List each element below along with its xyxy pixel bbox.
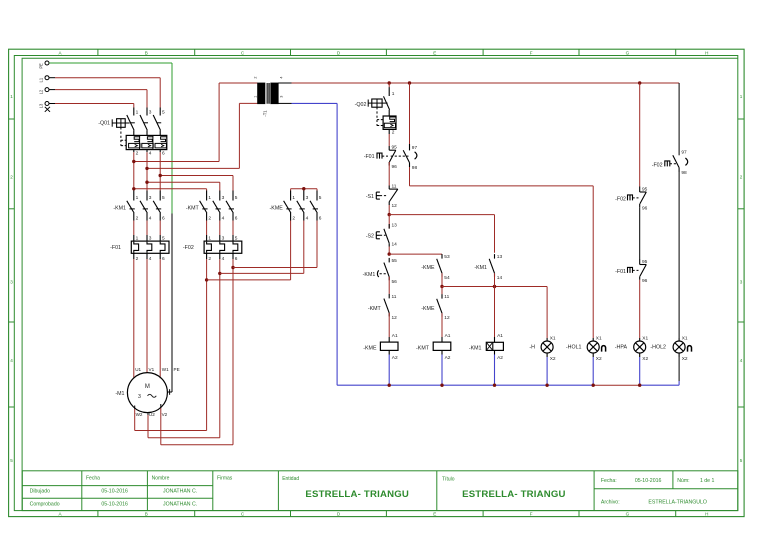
svg-text:2: 2 [292,216,295,222]
svg-text:Título: Título [442,477,455,483]
motor M1 (3-phase) [115,367,179,417]
svg-text:-HOL1: -HOL1 [566,345,582,351]
svg-text:A2: A2 [497,355,503,361]
svg-text:-KMT: -KMT [416,345,430,351]
svg-text:5: 5 [162,236,165,242]
svg-text:1: 1 [292,195,295,201]
thermal contact F01 95-96 (right) [615,259,648,284]
svg-text:05-10-2016: 05-10-2016 [101,489,128,495]
node neutral rail at KME coil [388,384,391,387]
svg-text:H: H [705,50,708,55]
terminal X3 (L2) [39,88,49,95]
svg-text:G: G [626,50,630,55]
wire S2 14 to node with KME 53 branch [388,247,391,256]
svg-text:JONATHAN C.: JONATHAN C. [163,489,197,495]
svg-text:-Q01: -Q01 [98,121,110,127]
svg-text:Comprobado: Comprobado [30,501,60,507]
svg-text:97: 97 [412,145,418,151]
transformer T1 [253,76,283,116]
svg-text:V2: V2 [162,412,168,417]
wire control supply top rail [292,82,680,84]
node neutral rail at KM1 coil [493,384,496,387]
wire top rail to F02 95 [639,83,641,187]
thermal overload relay F01 [110,235,169,262]
wire F02 pin6 down to motor loop V2 [231,259,234,445]
svg-text:96: 96 [642,278,648,284]
wire KMT A2 to neutral rail [441,355,443,386]
contactor KMT main poles [186,191,238,222]
svg-text:2: 2 [136,256,139,262]
svg-text:12: 12 [392,315,398,321]
svg-text:11: 11 [444,294,449,300]
svg-text:X1: X1 [642,335,648,341]
svg-text:3: 3 [10,280,13,285]
start pushbutton S2 (NO) [366,223,397,248]
svg-text:4: 4 [222,256,225,262]
svg-text:-F02: -F02 [615,196,626,202]
entidad cell ESTRELLA-TRIANGU [282,476,409,500]
svg-text:6: 6 [162,151,165,157]
wire lamp H X2 to neutral rail [546,357,548,385]
svg-text:JONATHAN C.: JONATHAN C. [163,501,197,507]
svg-text:3: 3 [149,236,152,242]
thermal contact F02 95-96 [615,187,648,212]
svg-text:-F02: -F02 [183,245,194,251]
auxiliary contact KMT 11-12 [368,294,397,321]
wire lamp HOL2 X2 down to rail [678,357,680,385]
wire top rail corner down to F02 97 [678,83,680,155]
svg-text:55: 55 [392,258,398,264]
svg-text:ESTRELLA- TRIANGU: ESTRELLA- TRIANGU [462,489,566,500]
svg-text:X2: X2 [642,356,648,362]
svg-text:2: 2 [208,216,211,222]
svg-text:-F01: -F01 [615,269,626,275]
svg-text:95: 95 [642,187,648,193]
svg-text:-KME: -KME [421,306,435,312]
wire L2 tap to KMT pin 3 [145,181,220,191]
svg-text:X1: X1 [596,335,602,341]
svg-text:5: 5 [162,110,165,116]
svg-text:W1: W1 [162,367,169,372]
svg-text:A1: A1 [497,333,503,339]
svg-text:1: 1 [253,96,257,98]
svg-text:ESTRELLA-TRIANGULO: ESTRELLA-TRIANGULO [648,500,707,506]
svg-text:14: 14 [497,275,503,281]
svg-text:W2: W2 [136,412,143,417]
indicator lamp HOL2 [650,335,691,362]
node neutral rail at KMT coil [440,384,443,387]
svg-text:-Q02: -Q02 [355,102,367,108]
wire F01 pin6 to motor W1 [159,259,161,378]
svg-text:-S2: -S2 [366,234,374,240]
wire T1 secondary 3 stub [278,102,291,104]
svg-text:5: 5 [235,195,238,201]
wire L3 tap to KMT pin 5 [159,174,234,191]
svg-text:3: 3 [222,236,225,242]
svg-text:1: 1 [208,195,211,201]
wire KM1 A2 to neutral rail [494,355,496,386]
titulo cell ESTRELLA-TRIANGU [442,477,566,501]
svg-text:-F02: -F02 [652,162,663,168]
indicator lamp HOL1 [566,335,606,362]
svg-text:-KME: -KME [270,205,284,211]
wire L2 tap to transformer primary terminal 1 [145,103,257,170]
node junction top rail at F02 95 [638,81,641,84]
svg-text:Nombre: Nombre [152,476,170,482]
svg-text:Archivo:: Archivo: [601,500,620,506]
svg-text:V1: V1 [149,367,155,372]
svg-text:54: 54 [444,275,450,281]
wire neutral rail left section [337,384,593,386]
wire loop to motor W2 [135,406,207,431]
svg-text:B: B [145,50,148,55]
wire KMT pin 4 to F02 pin 3 [219,221,221,236]
wire Q01 pin6 down to KM1 pin5 [159,152,161,190]
svg-text:PE: PE [174,367,180,372]
wire lamp HPA X2 to neutral rail [639,357,641,385]
svg-text:U2: U2 [149,412,155,417]
wire KME 54 to node 286 [440,273,443,288]
svg-text:5: 5 [235,236,238,242]
svg-text:53: 53 [444,254,450,260]
svg-text:-KME: -KME [363,345,377,351]
drawing area frame [22,58,738,510]
auxiliary contact KM1 55-56 [363,258,398,285]
title block dividers [22,471,738,511]
svg-text:-F01: -F01 [364,154,375,160]
svg-text:1 de 1: 1 de 1 [700,478,715,484]
auxiliary contact KME 53-54 [421,254,450,281]
wire F02 pin4 branch to KME pin 4 [220,221,304,274]
svg-text:1: 1 [136,236,139,242]
wire KMT 12 to KME coil A1 [388,313,390,337]
svg-text:4: 4 [10,358,13,363]
svg-text:X1: X1 [682,335,688,341]
svg-text:3: 3 [279,96,283,98]
svg-text:X2: X2 [596,356,602,362]
svg-text:Firmas: Firmas [217,476,233,482]
svg-text:6: 6 [162,216,165,222]
row numbers 1-5 [10,94,743,463]
svg-text:5: 5 [10,458,13,463]
indicator lamp HPA [615,335,649,362]
wire neutral rail middle red section [593,384,640,386]
wire KM1 56 to KMT 11 [388,277,390,294]
svg-text:-KM1: -KM1 [474,265,487,271]
svg-text:F: F [530,512,533,517]
svg-text:05-10-2016: 05-10-2016 [101,501,128,507]
wire node to S2 [388,215,390,229]
motor protection breaker Q02 [355,83,396,135]
wire branch S2 to KME 53 [389,253,442,255]
svg-text:4: 4 [222,216,225,222]
svg-text:B: B [145,512,148,517]
wire KME 12 to KMT coil A1 [441,313,443,337]
svg-text:4: 4 [149,256,152,262]
wire KME A2 to neutral rail [388,355,390,386]
svg-text:Fecha:: Fecha: [601,478,617,484]
svg-text:12: 12 [444,315,450,321]
svg-text:X2: X2 [682,356,688,362]
circuit breaker Q01 (3-pole magnetothermal) [98,108,167,157]
svg-text:-H: -H [529,345,535,351]
svg-text:E: E [433,50,436,55]
svg-text:96: 96 [642,206,648,212]
terminal X1 (PE) [39,61,49,69]
thermal NO contact F02 97-98 [652,150,688,176]
wire PE black continuation into motor [168,214,172,395]
wire L1 to Q01 pin 5 [49,78,160,108]
auxiliary contact KME 11-12 [421,294,450,321]
thermal contact F01 95-96 [364,145,397,170]
svg-text:4: 4 [149,151,152,157]
wire node to KM1 coil A1 [494,287,496,338]
svg-text:5: 5 [162,195,165,201]
svg-text:-M1: -M1 [115,391,124,397]
svg-text:96: 96 [392,164,398,170]
svg-text:Núm:: Núm: [677,478,689,484]
svg-text:-HPA: -HPA [615,345,628,351]
svg-text:-KME: -KME [421,265,435,271]
svg-text:1: 1 [208,236,211,242]
svg-text:4: 4 [306,216,309,222]
svg-text:98: 98 [412,165,418,171]
svg-text:95: 95 [642,259,648,265]
svg-text:G: G [626,512,630,517]
wire KM1 14 to node 286 [494,273,496,286]
svg-text:1: 1 [740,94,743,99]
svg-text:A2: A2 [445,355,451,361]
svg-text:PE: PE [39,63,44,69]
svg-text:1: 1 [136,110,139,116]
wire F01 98 to lamp HOL1 [410,167,594,338]
title block right info cells [601,478,715,506]
terminal strip mark X [45,107,50,112]
svg-text:98: 98 [681,170,687,176]
svg-text:-KMT: -KMT [186,205,200,211]
svg-text:97: 97 [681,150,687,156]
svg-text:M: M [145,384,150,390]
wire Q02 pin2 to F01 95 [388,134,390,146]
indicator lamp H [529,335,555,362]
node neutral rail at lamp HPA [638,384,641,387]
svg-text:2: 2 [392,129,395,135]
wire KM1 pin 2 to F01 pin 1 [133,221,135,236]
svg-text:5: 5 [740,458,743,463]
wire F01 96 to S1 [388,162,390,186]
svg-text:F: F [530,50,533,55]
node junction top rail at F01 97 [408,81,411,84]
svg-text:Entidad: Entidad [282,476,299,482]
svg-text:2: 2 [208,256,211,262]
svg-text:2: 2 [253,76,257,78]
contactor coil KMT [416,333,451,361]
terminal X4 (L3) [39,102,49,109]
wire loop to motor U2 [148,412,220,438]
column tick marks top and bottom [98,49,676,516]
svg-text:L3: L3 [39,103,44,108]
thermal overload relay F02 [183,235,242,262]
svg-text:11: 11 [392,184,397,190]
contactor coil KM1 with latch block [469,333,504,361]
svg-text:X1: X1 [550,335,556,341]
title block left table texts [30,476,233,508]
svg-text:A1: A1 [392,333,398,339]
wire Q01 pin2 down to KM1 pin1 [133,152,135,190]
wire L1 tap to transformer primary terminal 2 [132,83,258,163]
wire branch S1 to KM1 13 [389,215,494,253]
svg-text:A1: A1 [445,333,451,339]
node neutral rail at lamp HOL1 [592,384,595,387]
wire KMT pin 6 to F02 pin 5 [232,221,234,236]
wire F02 pin2 down to motor loop W2 [205,259,208,431]
svg-text:-KM1: -KM1 [113,205,126,211]
svg-text:-KM1: -KM1 [363,272,376,278]
row tick marks left and right [9,119,745,407]
wire Q01 pin4 down to KM1 pin3 [146,152,148,190]
svg-text:05-10-2016: 05-10-2016 [635,478,662,484]
wire neutral from transformer down [292,103,338,385]
wire F01 pin2 to motor U1 [133,259,135,378]
svg-text:6: 6 [235,216,238,222]
wire F02 pin6 branch to KME pin 6 [233,221,317,268]
wire lamp HOL1 X2 to neutral rail [592,357,594,385]
svg-text:1: 1 [10,94,13,99]
thermal NO contact F01 97-98 [403,83,417,171]
svg-text:3: 3 [222,195,225,201]
mechanical link dashes F01 to 97-98 contact [391,155,409,157]
svg-text:Fecha: Fecha [86,476,100,482]
svg-text:-F01: -F01 [110,245,121,251]
svg-text:A2: A2 [392,355,398,361]
svg-text:H: H [705,512,708,517]
svg-text:-HOL2: -HOL2 [650,345,666,351]
node junction top rail at Q02 [388,81,391,84]
svg-text:56: 56 [392,279,398,285]
wire F02 96 to F01 95 [639,207,641,259]
wire L1 tap to KMT pin 1 [132,187,207,190]
title block outline [22,471,738,511]
wire L3 to Q01 pin 1 [49,104,134,108]
node neutral rail at lamp H [545,384,548,387]
svg-text:ESTRELLA- TRIANGU: ESTRELLA- TRIANGU [305,489,409,500]
contactor coil KME [363,333,398,361]
svg-text:2: 2 [136,216,139,222]
svg-text:13: 13 [497,254,503,260]
svg-text:3: 3 [306,195,309,201]
svg-text:2: 2 [740,175,743,180]
svg-text:3: 3 [740,280,743,285]
svg-text:4: 4 [279,76,283,78]
wire KM1 pin 6 to F01 pin 5 [159,221,161,236]
wire KMT pin 2 to F02 pin 1 [206,221,208,236]
wire L2 to Q01 pin 3 [49,90,147,108]
svg-text:3: 3 [149,110,152,116]
svg-text:6: 6 [235,256,238,262]
wire F01 96 to lamp HPA [639,280,641,338]
svg-text:-KM1: -KM1 [469,345,482,351]
contactor KME main poles [270,191,322,222]
wire loop to motor V2 [161,404,233,445]
svg-text:-KMT: -KMT [368,306,382,312]
svg-text:13: 13 [392,223,398,229]
svg-text:L2: L2 [39,89,44,94]
page border inner frame [14,56,738,511]
wire F02 98 to lamp HOL2 [678,172,680,338]
wire KM1 pin 4 to F01 pin 3 [146,221,148,236]
svg-text:11: 11 [392,294,397,300]
svg-text:4: 4 [740,358,743,363]
svg-text:3: 3 [138,394,141,400]
svg-text:E: E [433,512,436,517]
wire S1 12 to node with KM1 13 branch [388,205,391,216]
wire T1 secondary 4 stub [278,82,291,84]
svg-text:U1: U1 [135,367,141,372]
wire F02 pin4 down to motor loop U2 [218,259,221,438]
svg-text:95: 95 [392,145,398,151]
svg-text:X2: X2 [550,356,556,362]
wire neutral rail right section [640,384,679,386]
wire F02 pin2 branch to KME pin 2 [207,221,291,280]
wire node to lamp H with KM1 14 junction [442,285,547,338]
svg-text:3: 3 [149,195,152,201]
svg-text:Dibujado: Dibujado [30,489,51,495]
svg-text:1: 1 [136,195,139,201]
contactor KM1 main poles [113,191,165,222]
wire star point bridge on KME pins 1-3-5 [291,187,317,191]
svg-text:2: 2 [136,151,139,157]
svg-text:5: 5 [319,195,322,201]
wire PE green from terminal to vertical run [49,63,172,214]
svg-text:1: 1 [392,91,395,97]
svg-text:4: 4 [149,216,152,222]
svg-text:12: 12 [392,203,398,209]
svg-text:-S1: -S1 [366,194,374,200]
stop pushbutton S1 (NC) [366,184,398,209]
svg-text:6: 6 [319,216,322,222]
wire F01 pin4 to motor V1 [146,259,148,373]
wire node to KME 11 [441,287,443,295]
column letters A-H [58,50,708,516]
svg-text:14: 14 [392,241,398,247]
svg-text:-T1: -T1 [262,110,267,117]
terminal X2 (L1) [39,76,49,83]
auxiliary contact KM1 13-14 [474,254,502,281]
svg-text:6: 6 [162,256,165,262]
svg-text:2: 2 [10,175,13,180]
svg-text:L1: L1 [39,77,44,82]
